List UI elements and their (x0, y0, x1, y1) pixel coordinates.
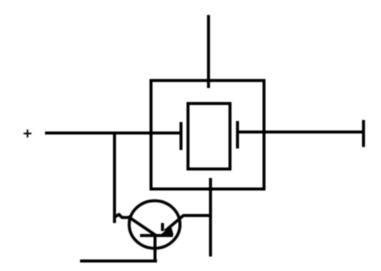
crystal case (shield box) (151, 81, 264, 190)
crystal body X1 (188, 104, 230, 170)
wire crystal case bottom lead (209, 178, 212, 257)
wire branch down from + wire (113, 132, 116, 224)
crystal plate left (180, 122, 183, 150)
wire emitter to crystal lead (183, 214, 212, 217)
wire base lead down (154, 236, 157, 262)
transistor emitter arrowhead (160, 226, 174, 236)
arrowhead tick (161, 223, 164, 231)
transistor emitter slant (165, 215, 184, 231)
transistor collector slant (128, 217, 156, 236)
wire collector (wavy) (114, 215, 130, 218)
wire right (right plate to terminal) (239, 131, 364, 134)
label + (24, 130, 32, 138)
transistor base bar (140, 234, 173, 237)
wire top lead (207, 15, 210, 88)
wire bottom (80, 260, 157, 263)
crystal plate right (236, 121, 239, 149)
wire left (+ input to left plate) (45, 132, 180, 135)
transistor Q1 (PNP) body (129, 201, 180, 249)
terminal bar right (362, 120, 365, 147)
